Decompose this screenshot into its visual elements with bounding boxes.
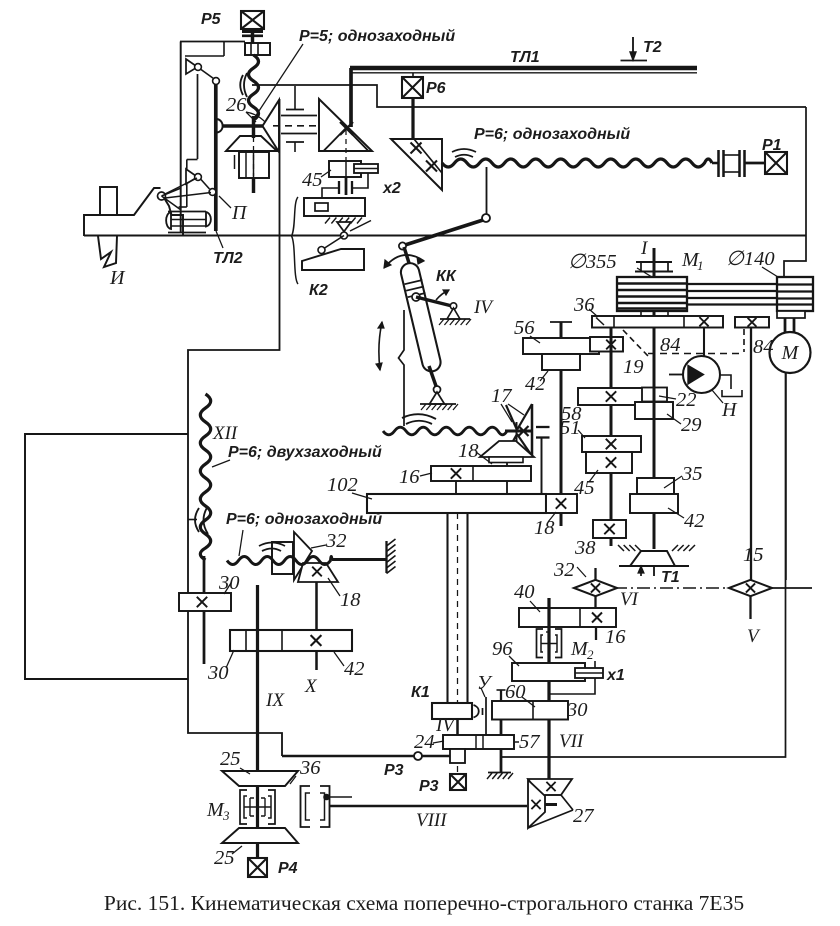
bearing T above sleeve xyxy=(294,86,296,110)
svg-text:VII: VII xyxy=(559,731,585,752)
leader dvukh xyxy=(212,460,230,467)
svg-text:И: И xyxy=(109,267,126,289)
bevel 27 left xyxy=(528,780,545,828)
pawl housing P xyxy=(223,42,225,56)
svg-text:51: 51 xyxy=(560,417,581,439)
wire to P1 xyxy=(745,162,765,165)
wire shaft XII lower xyxy=(203,611,206,664)
tool head lower jag xyxy=(98,236,117,267)
adjuster ticks xyxy=(536,426,550,428)
coupling box on P5 shaft xyxy=(245,43,270,55)
worm jump arcs top xyxy=(452,149,476,152)
coupling under 45 xyxy=(338,181,340,194)
bevel 17 pair xyxy=(506,405,517,430)
svg-text:XII: XII xyxy=(212,423,239,444)
svg-text:IV: IV xyxy=(473,297,494,318)
worm feed wave low xyxy=(227,557,332,565)
svg-text:Р=6; однозаходный: Р=6; однозаходный xyxy=(474,126,630,143)
leader TL2 xyxy=(216,231,223,248)
rod Y xyxy=(485,697,487,735)
axis VI dash-dot xyxy=(614,587,729,589)
indexing box x2 xyxy=(354,164,378,173)
wire stub 16 xyxy=(595,627,597,640)
svg-text:15: 15 xyxy=(743,544,764,566)
wire vertical rod x404 xyxy=(399,310,405,426)
svg-text:29: 29 xyxy=(681,414,702,436)
arrow small IV xyxy=(436,290,449,300)
bearing cup shaft 26 xyxy=(217,119,223,133)
cone pulley D355 xyxy=(617,277,687,311)
svg-text:18: 18 xyxy=(340,589,361,611)
svg-text:Т1: Т1 xyxy=(661,569,680,586)
svg-text:x2: x2 xyxy=(382,180,401,197)
cone 25 upper xyxy=(222,771,298,786)
shaft I cap xyxy=(636,261,672,263)
worm XII wave xyxy=(200,394,210,560)
worm P=6 ram screw xyxy=(442,159,712,167)
svg-text:18: 18 xyxy=(534,517,555,539)
wire stem row16 xyxy=(455,481,457,494)
bevel cone mate left xyxy=(226,136,277,151)
clutch M2 xyxy=(537,629,544,658)
wire pump stem xyxy=(703,328,705,357)
gear row 24-57 xyxy=(443,735,514,749)
wire elbow x2 to rod xyxy=(352,173,368,188)
gear 29 xyxy=(635,402,673,419)
follower pivot triangle xyxy=(337,222,351,232)
tool head top block xyxy=(100,187,117,215)
crank pin xyxy=(482,214,490,222)
pawl upper triangle xyxy=(186,59,198,74)
mesh X right bevel xyxy=(340,122,353,135)
svg-text:30: 30 xyxy=(207,662,229,684)
ground hatch under U shaft xyxy=(488,772,511,774)
svg-text:2: 2 xyxy=(587,647,594,662)
gear 42 right xyxy=(630,494,678,513)
svg-text:Рис. 151. Кинематическая схема: Рис. 151. Кинематическая схема поперечно… xyxy=(104,891,744,915)
bevel 32 cone xyxy=(294,532,312,580)
leader odno low xyxy=(239,530,243,556)
svg-text:∅140: ∅140 xyxy=(726,248,775,270)
gear 42 upper xyxy=(542,354,580,370)
leader 45 xyxy=(321,170,331,177)
axis dashed horizontal xyxy=(273,125,342,127)
svg-text:32: 32 xyxy=(553,559,575,581)
cone 25 lower xyxy=(222,828,298,843)
svg-text:П: П xyxy=(231,202,248,224)
bevel 32 diamond VI xyxy=(574,580,617,596)
wire shaft X xyxy=(315,582,318,630)
cam K2 xyxy=(302,249,364,270)
wire to wall xyxy=(332,558,386,561)
svg-text:17: 17 xyxy=(491,385,512,407)
wire shaft IX xyxy=(256,585,259,858)
gear 58 xyxy=(578,388,646,405)
svg-text:30: 30 xyxy=(218,572,240,594)
wire left big box xyxy=(25,434,188,679)
bevel 27 extra lines xyxy=(545,794,561,796)
tick frame to worm xyxy=(188,519,197,521)
sleeve between bevels xyxy=(281,115,317,117)
gear row 60-30 xyxy=(492,701,568,720)
pawl upper pin xyxy=(195,64,202,71)
worm low arcs xyxy=(259,543,285,547)
gear row 30-42 xyxy=(230,630,352,651)
svg-text:84: 84 xyxy=(660,334,681,356)
clutch 84 xbox right xyxy=(735,317,769,328)
clapper links xyxy=(162,188,182,196)
wire screw stub xyxy=(456,719,459,735)
slider box K2 xyxy=(304,198,365,216)
gear 35 xyxy=(637,478,674,494)
wall anchor hatched xyxy=(385,541,387,573)
svg-text:25: 25 xyxy=(220,748,241,770)
svg-text:Р4: Р4 xyxy=(278,860,298,877)
screw TL2 left cup xyxy=(166,212,171,229)
gear box under bevel 26 xyxy=(239,152,269,178)
limit switch P6 xyxy=(402,77,423,98)
bracket K2 xyxy=(292,197,299,284)
bevel cone 18 xyxy=(480,441,534,457)
svg-text:16: 16 xyxy=(605,626,626,648)
svg-text:42: 42 xyxy=(344,658,365,680)
wire shaft VIII xyxy=(330,805,527,808)
support IV xyxy=(447,308,460,319)
svg-text:ТЛ2: ТЛ2 xyxy=(213,250,243,267)
svg-text:М: М xyxy=(781,342,800,364)
svg-text:1: 1 xyxy=(697,258,704,273)
svg-text:КК: КК xyxy=(436,268,457,285)
worm cross feed wave xyxy=(383,427,507,435)
worm jump arcs P5 xyxy=(240,75,243,95)
gear 56 xyxy=(523,338,599,354)
leader P=5 xyxy=(255,44,303,117)
gear row 16 xyxy=(431,466,531,481)
motor M xyxy=(770,332,811,373)
wire shaft I xyxy=(653,248,656,330)
tool head I outline xyxy=(84,188,161,236)
worm P=5 odnozakhodny xyxy=(249,55,259,120)
screw TL2 right cup xyxy=(206,212,211,227)
bevel 18 trapezoid xyxy=(298,563,338,582)
svg-text:32: 32 xyxy=(325,530,347,552)
frame top left xyxy=(180,41,245,43)
rod P xyxy=(214,84,218,231)
gear row on shaft I xyxy=(592,316,723,328)
shaft collar below P5 xyxy=(242,30,263,33)
follower link xyxy=(322,236,345,251)
svg-text:42: 42 xyxy=(525,373,546,395)
thrust cup K1 xyxy=(474,705,479,718)
indexing x1 xyxy=(575,668,603,678)
svg-text:25: 25 xyxy=(214,847,235,869)
wire shaft stub below 26 xyxy=(252,178,255,193)
svg-text:К1: К1 xyxy=(411,684,430,701)
clutch M3 xyxy=(240,790,247,824)
svg-text:84: 84 xyxy=(753,336,774,358)
svg-text:К2: К2 xyxy=(309,282,328,299)
wire VI stubs xyxy=(594,568,596,580)
pawl lower triangle xyxy=(186,169,198,184)
svg-text:X: X xyxy=(304,676,318,697)
svg-text:45: 45 xyxy=(574,477,595,499)
svg-text:Н: Н xyxy=(721,399,738,421)
svg-text:57: 57 xyxy=(519,731,540,753)
wire shaft VII xyxy=(547,598,550,779)
rocker lower link xyxy=(429,366,436,386)
wire rod from adjuster xyxy=(541,438,543,494)
arrow T1 xyxy=(640,568,642,576)
leader 18 cone xyxy=(476,452,492,464)
follower pivot pin xyxy=(341,232,348,239)
crank pin in slot xyxy=(412,293,420,301)
wire motor line xyxy=(785,373,787,580)
svg-text:56: 56 xyxy=(514,317,535,339)
pin IV xyxy=(450,303,456,309)
svg-text:24: 24 xyxy=(414,731,435,753)
rocker top pin xyxy=(399,242,406,249)
gear row 40-16 xyxy=(519,608,616,627)
wire elbow x1 xyxy=(549,678,595,694)
svg-text:38: 38 xyxy=(574,537,596,559)
svg-text:16: 16 xyxy=(399,466,420,488)
belt lines xyxy=(687,283,777,285)
wire left column frame xyxy=(188,99,282,756)
svg-text:26: 26 xyxy=(226,94,247,116)
motor pulley hub xyxy=(777,311,805,318)
vertical link from screw to crank xyxy=(486,167,488,214)
svg-text:Р3: Р3 xyxy=(419,778,439,795)
wire shaft 56 xyxy=(560,322,563,494)
clapper pivot pin xyxy=(158,192,166,200)
pump H xyxy=(683,356,720,393)
bevel gear left (26) xyxy=(263,100,280,152)
friction cone T1 xyxy=(630,551,675,566)
wire shaft U lower xyxy=(500,720,503,773)
rocker arc arrow xyxy=(384,255,424,268)
wire shaft V vertical xyxy=(750,328,752,581)
worm slide box xyxy=(272,542,293,574)
leaders 17 xyxy=(501,404,512,422)
svg-text:∅355: ∅355 xyxy=(568,251,617,273)
svg-text:35: 35 xyxy=(681,463,703,485)
wire ram guide line xyxy=(84,235,806,237)
wire shaft XI columns xyxy=(446,513,448,703)
svg-text:Р3: Р3 xyxy=(384,762,404,779)
wire V axis right xyxy=(772,587,812,589)
bevel 15 diamond xyxy=(729,580,772,596)
axis dashed vertical 26 xyxy=(253,128,255,176)
svg-text:Т2: Т2 xyxy=(643,39,662,56)
bevel gear right big xyxy=(319,99,372,151)
svg-text:Р=6; однозаходный: Р=6; однозаходный xyxy=(226,511,382,528)
svg-text:ТЛ1: ТЛ1 xyxy=(510,49,540,66)
axis dashed 45 xyxy=(345,130,347,160)
link IV xyxy=(416,297,452,306)
leader 26 xyxy=(246,112,256,122)
coupling near P1 xyxy=(717,150,720,177)
svg-text:Р6: Р6 xyxy=(426,80,446,97)
svg-text:30: 30 xyxy=(566,699,588,721)
shift fork dashes 84 xyxy=(623,330,648,356)
limit switch P3 xyxy=(450,774,466,790)
limit switch P1 xyxy=(765,152,787,174)
svg-text:36: 36 xyxy=(299,757,321,779)
follower arm xyxy=(350,221,371,232)
pin on rod P top xyxy=(213,78,220,85)
rod P3 horizontal xyxy=(282,755,450,758)
svg-text:22: 22 xyxy=(676,389,697,411)
svg-text:Р5: Р5 xyxy=(201,11,222,28)
wire P6 stem xyxy=(412,73,414,77)
svg-text:60: 60 xyxy=(505,681,526,703)
svg-text:36: 36 xyxy=(573,294,595,316)
svg-text:Р=6; двухзаходный: Р=6; двухзаходный xyxy=(228,444,382,461)
wire shaft U stub xyxy=(500,690,502,701)
svg-text:3: 3 xyxy=(222,808,230,823)
svg-text:42: 42 xyxy=(684,510,705,532)
hatch under slider xyxy=(325,218,330,224)
rocker bottom pin xyxy=(434,386,441,393)
leader 102 xyxy=(352,493,372,499)
svg-text:IX: IX xyxy=(265,690,285,711)
link lower pawl xyxy=(201,180,210,190)
svg-text:40: 40 xyxy=(514,581,535,603)
svg-text:27: 27 xyxy=(573,805,594,827)
gear 22 xyxy=(642,388,667,402)
link pawl to rod xyxy=(201,70,214,79)
leader 16 xyxy=(420,473,432,476)
bevel pair on ram screw xyxy=(391,139,442,190)
pump drain xyxy=(720,375,731,389)
wire P5 shaft xyxy=(251,29,254,43)
limit switch P5 xyxy=(241,11,264,29)
wire shaft III xyxy=(653,328,656,550)
wire shaft V lower xyxy=(749,596,751,619)
belt to motor xyxy=(784,318,787,332)
worm XII arcs xyxy=(195,508,199,532)
crank link to rocker top xyxy=(405,220,483,245)
svg-text:45: 45 xyxy=(302,169,323,191)
slide box under 24 xyxy=(450,749,465,763)
gear 96 xyxy=(512,663,585,681)
wire shaft 26 xyxy=(223,124,263,127)
gear 51 xyxy=(582,436,641,452)
wire TL1 rail xyxy=(350,66,697,71)
screw TL2 lines xyxy=(168,211,206,213)
cam roller pin xyxy=(318,247,325,254)
chain drive 36 xyxy=(301,786,311,827)
bevel cone inner xyxy=(324,128,368,151)
slider inner block xyxy=(315,203,328,211)
svg-text:19: 19 xyxy=(623,356,644,378)
wire top frame link xyxy=(252,85,806,107)
limit switch P4 xyxy=(248,858,267,877)
rocker KK body xyxy=(404,247,409,263)
pulley bottom cap xyxy=(636,318,672,320)
svg-text:VIII: VIII xyxy=(416,810,448,831)
pin on rod P bottom xyxy=(209,189,216,196)
stop T2 arrow xyxy=(632,37,634,56)
pawl lower pin xyxy=(195,174,202,181)
rocker bottom support xyxy=(430,392,445,404)
gear box 45 xyxy=(329,161,361,177)
wire right frame upper xyxy=(784,107,806,277)
worm jump arcs mid xyxy=(402,414,436,419)
leader P xyxy=(219,196,231,208)
svg-text:Р1: Р1 xyxy=(762,137,782,154)
wire TL1 drop shaft xyxy=(349,68,353,127)
gear 19 xbox xyxy=(590,337,623,352)
rocker slide block xyxy=(405,280,423,284)
gear 38 xbox xyxy=(593,520,626,538)
svg-text:x1: x1 xyxy=(606,667,625,684)
wire shaft II xyxy=(610,328,613,547)
svg-text:VI: VI xyxy=(620,589,640,610)
nut K1 xyxy=(432,703,472,719)
bearing T below sleeve xyxy=(286,141,304,143)
ball joint P3 xyxy=(414,752,422,760)
svg-text:18: 18 xyxy=(458,440,479,462)
gear 45 right xyxy=(586,452,632,473)
bevel 27 upper xyxy=(528,779,572,795)
leader 18 pinion xyxy=(548,512,556,522)
gear 30 xbox on XII xyxy=(203,556,206,593)
rack bar 102 xyxy=(367,494,546,513)
svg-text:Р=5; однозаходный: Р=5; однозаходный xyxy=(299,28,455,45)
pinion 18 xbox xyxy=(546,494,577,513)
svg-text:IV: IV xyxy=(435,715,456,736)
cone pulley D140 xyxy=(777,277,813,311)
wire bottom-right frame xyxy=(501,373,786,757)
